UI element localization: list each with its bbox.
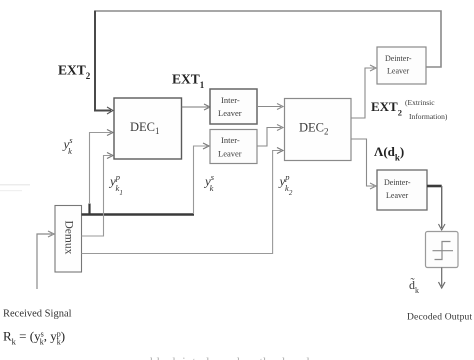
wire decision device output arrow	[439, 268, 446, 289]
wire DEC1 output to Interleaver 1	[182, 104, 211, 110]
scan artifact streaks (left edge)	[0, 184, 30, 186]
svg-text:Inter-: Inter-	[221, 95, 240, 105]
svg-text:EXT1: EXT1	[172, 72, 205, 91]
svg-text:EXT2: EXT2	[371, 99, 402, 118]
deinterleaver 2 (lower Deinter-Leaver)	[377, 170, 427, 210]
wire Deinterleaver2 to decision device	[427, 186, 445, 230]
svg-text:Leaver: Leaver	[218, 108, 242, 118]
svg-text:Deinter-: Deinter-	[384, 178, 411, 187]
svg-text:Information): Information)	[409, 112, 448, 121]
wire EXT2 feedback loop (deinterleaver to DEC1)	[95, 11, 441, 115]
decoder DEC1	[114, 98, 182, 159]
svg-text:Inter-: Inter-	[221, 135, 240, 145]
svg-text:ypk2: ypk2	[278, 172, 293, 197]
wire received signal input to Demux	[37, 231, 54, 289]
svg-text:Λ(dk): Λ(dk)	[374, 144, 404, 163]
wire systematic y_k^s from Demux (thick bus)	[82, 204, 195, 216]
svg-text:Leaver: Leaver	[387, 67, 410, 76]
svg-text:ysk: ysk	[203, 172, 215, 193]
wire y_k^s branch to Interleaver 2	[194, 143, 210, 214]
svg-text:block interleaved on the de: block interleaved on the decoder	[150, 354, 320, 360]
svg-text:d̃k: d̃k	[409, 277, 419, 295]
wire parity y_k2^p from Demux to DEC2	[82, 148, 284, 254]
svg-text:EXT2: EXT2	[58, 63, 91, 82]
svg-text:ysk: ysk	[62, 135, 74, 156]
svg-text:Received Signal: Received Signal	[3, 309, 72, 320]
svg-text:(Extrinsic: (Extrinsic	[405, 98, 435, 107]
decision device (hard limiter)	[426, 232, 459, 268]
wire DEC2 Lambda output to Deinterleaver 2	[351, 139, 376, 189]
wire Interleaver2 to DEC2	[257, 125, 283, 147]
svg-text:Decoded Output: Decoded Output	[407, 313, 472, 323]
wire Interleaver1 to DEC2	[257, 104, 283, 110]
deinterleaver 1 (top-right Deinter-Leaver)	[377, 47, 426, 84]
svg-text:Rk = (ysk, ypk): Rk = (ysk, ypk)	[3, 329, 65, 347]
wire parity y_k1^p from Demux to DEC1	[82, 153, 114, 237]
interleaver 1 (upper Inter-Leaver)	[210, 89, 257, 124]
decoder DEC2	[285, 99, 352, 161]
wire y_k^s branch to DEC1	[90, 130, 114, 205]
svg-text:Leaver: Leaver	[386, 191, 409, 200]
svg-text:ypk1: ypk1	[108, 172, 123, 197]
svg-text:Demux: Demux	[63, 221, 75, 255]
demultiplexer Demux	[55, 206, 82, 273]
svg-text:Leaver: Leaver	[218, 149, 242, 159]
svg-text:Deinter-: Deinter-	[385, 54, 412, 63]
wire DEC2 EXT2 output to Deinterleaver 1	[351, 65, 376, 118]
interleaver 2 (lower Inter-Leaver)	[210, 130, 257, 164]
